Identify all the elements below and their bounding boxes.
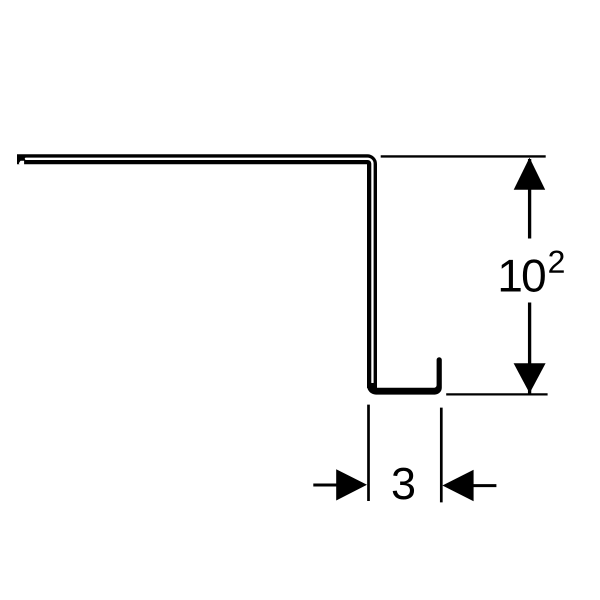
dimension line vertical upper segment bbox=[528, 159, 531, 239]
extension line right (width dimension) bbox=[440, 408, 443, 503]
profile outline: top flange and vertical leg (outer black) bbox=[17, 159, 372, 388]
extension line top (height dimension) bbox=[381, 155, 546, 157]
dimension text 3 bbox=[393, 468, 414, 500]
folded left end notch of top flange bbox=[19, 161, 24, 166]
dimension text superscript 2 bbox=[549, 250, 564, 272]
profile sheet core (white inner gap) bbox=[26, 159, 373, 383]
dimension text 10 bbox=[501, 260, 521, 292]
dimension line vertical lower segment bbox=[528, 303, 531, 394]
arrowhead left-pointing (width dimension) bbox=[442, 470, 473, 502]
profile bottom hook (J-shaped return) bbox=[367, 357, 442, 394]
extension line left (width dimension) bbox=[367, 405, 370, 501]
extension line bottom (height dimension) bbox=[446, 393, 547, 395]
arrowhead down (height dimension) bbox=[514, 363, 546, 393]
arrowhead up (height dimension) bbox=[514, 158, 546, 190]
arrowhead right-pointing (width dimension) bbox=[336, 469, 367, 500]
dimension tail line left bbox=[313, 484, 340, 487]
dimension tail line right bbox=[470, 484, 496, 487]
